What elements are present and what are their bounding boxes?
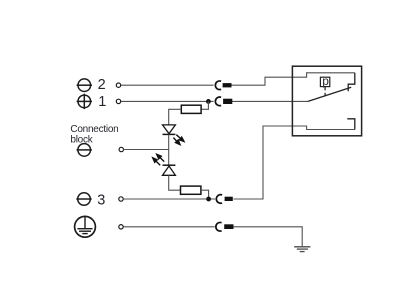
LED D1 emission arrows bbox=[173, 135, 184, 145]
svg-text:2: 2 bbox=[98, 77, 106, 93]
node open circle wire 2 bbox=[116, 83, 120, 87]
terminal circle minus (3) bbox=[76, 193, 91, 206]
wire 3 left segment bbox=[123, 198, 215, 200]
earth ground symbol bbox=[294, 247, 310, 252]
LED D2 (pointing up) bbox=[163, 165, 176, 175]
wire PE left segment bbox=[123, 226, 214, 228]
resistor R2 bbox=[181, 186, 201, 194]
node open circle wire 1 bbox=[116, 99, 120, 103]
connector pair on wire 3 bbox=[216, 195, 232, 204]
resistor R1 bbox=[181, 105, 201, 113]
terminal circle minus (connection block) bbox=[77, 144, 92, 157]
wire LED2 to R2 bbox=[169, 175, 181, 190]
LED D2 emission arrows bbox=[153, 154, 165, 165]
connector pair on PE wire bbox=[216, 222, 234, 231]
wire 1 left segment bbox=[121, 100, 214, 102]
wire branch from wire1 junction down to R1 bbox=[201, 101, 208, 109]
wire connection block bbox=[123, 149, 169, 151]
fixed contact bottom (hook, unused) bbox=[347, 119, 355, 130]
terminal circle minus (2) bbox=[77, 79, 92, 92]
wire from R1 left to LED branch bbox=[169, 109, 182, 125]
wire 1 right segment to switch pivot bbox=[232, 100, 308, 102]
LED D1 (pointing down) bbox=[163, 125, 176, 134]
connector pair on wire 2 (socket arc + plug pin) bbox=[215, 81, 231, 90]
actuator box with letter p bbox=[320, 77, 329, 86]
wire LED1 to mid node bbox=[168, 134, 170, 165]
wire 3 right segment rising to box bottom rail bbox=[233, 126, 354, 199]
junction dot wire 3 bbox=[206, 197, 211, 202]
connector pair on wire 1 bbox=[215, 97, 232, 106]
node open circle PE wire bbox=[119, 225, 123, 229]
wire 2 left segment bbox=[121, 84, 214, 86]
wire 2 right segment with step up into box bbox=[232, 73, 355, 85]
node open circle wire 3 bbox=[119, 197, 123, 201]
junction dot wire 1 / R1 branch bbox=[206, 99, 211, 104]
svg-text:1: 1 bbox=[98, 94, 106, 110]
node open circle connection block wire bbox=[119, 147, 123, 151]
svg-text:3: 3 bbox=[97, 193, 105, 209]
switch lever bbox=[308, 87, 351, 101]
terminal PE protective earth circle bbox=[75, 216, 96, 237]
fixed contact top (hook) bbox=[348, 73, 355, 91]
terminal circle plus (1) bbox=[77, 94, 92, 109]
wire PE right segment down to earth bbox=[234, 227, 303, 247]
pressure switch box outline bbox=[292, 66, 361, 136]
dashed actuator link bbox=[324, 87, 326, 96]
svg-text:p: p bbox=[322, 74, 329, 88]
wire R2 to wire3 junction bbox=[201, 190, 209, 199]
